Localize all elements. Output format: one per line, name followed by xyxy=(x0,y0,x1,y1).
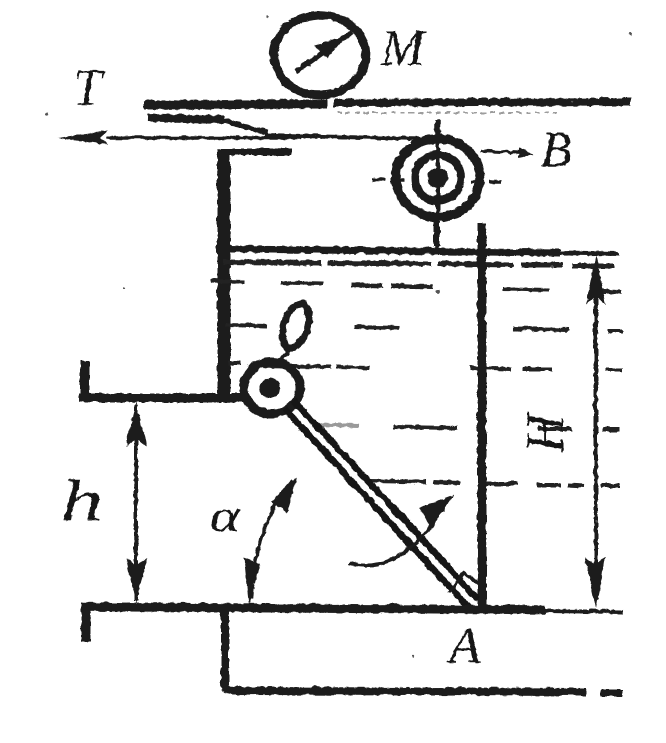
svg-text:H: H xyxy=(514,410,574,453)
lower box wall xyxy=(224,610,622,692)
angle arc alpha xyxy=(243,477,296,605)
svg-text:B: B xyxy=(540,120,571,176)
rope from support to pulley xyxy=(147,117,421,138)
left wall top lip xyxy=(220,148,291,155)
pulley vertical centerline xyxy=(436,119,437,251)
svg-text:T: T xyxy=(72,59,104,116)
svg-text:M: M xyxy=(379,19,426,76)
hinge O xyxy=(243,361,299,413)
label alpha xyxy=(209,490,241,540)
water shading row 1 xyxy=(222,261,614,265)
ceiling line right segment xyxy=(333,101,630,112)
scan speckles xyxy=(46,15,631,656)
water shading row 3 xyxy=(225,324,622,330)
right-angle mark at A xyxy=(448,572,482,592)
svg-text:A: A xyxy=(445,617,480,674)
rod / flap OA xyxy=(284,399,478,606)
water shading row 4 xyxy=(227,362,622,369)
dimension h line xyxy=(125,401,146,603)
ceiling line left segment xyxy=(143,103,326,104)
tension T arrow xyxy=(57,129,300,144)
label H xyxy=(514,410,574,453)
rotation direction arrow xyxy=(348,494,453,564)
label h xyxy=(60,468,102,532)
label O xyxy=(276,299,313,361)
right tank wall xyxy=(477,222,486,607)
water surface line xyxy=(229,248,618,253)
label B xyxy=(540,120,571,176)
label M xyxy=(379,19,426,76)
water shading row 6 xyxy=(368,480,619,485)
water shading row 2 xyxy=(210,280,620,291)
pulley horizontal centerline xyxy=(371,179,505,181)
water shading row 5 xyxy=(311,424,618,429)
ledge / bracket xyxy=(78,360,248,399)
gauge M xyxy=(273,14,365,94)
left tank wall xyxy=(217,148,230,400)
pulley B xyxy=(395,138,479,216)
dimension H line xyxy=(584,254,605,607)
label T xyxy=(72,59,104,116)
floor line xyxy=(80,606,622,641)
svg-text:α: α xyxy=(209,490,241,540)
label A xyxy=(445,617,480,674)
leader arrow to B xyxy=(480,148,532,157)
svg-text:h: h xyxy=(60,468,102,532)
